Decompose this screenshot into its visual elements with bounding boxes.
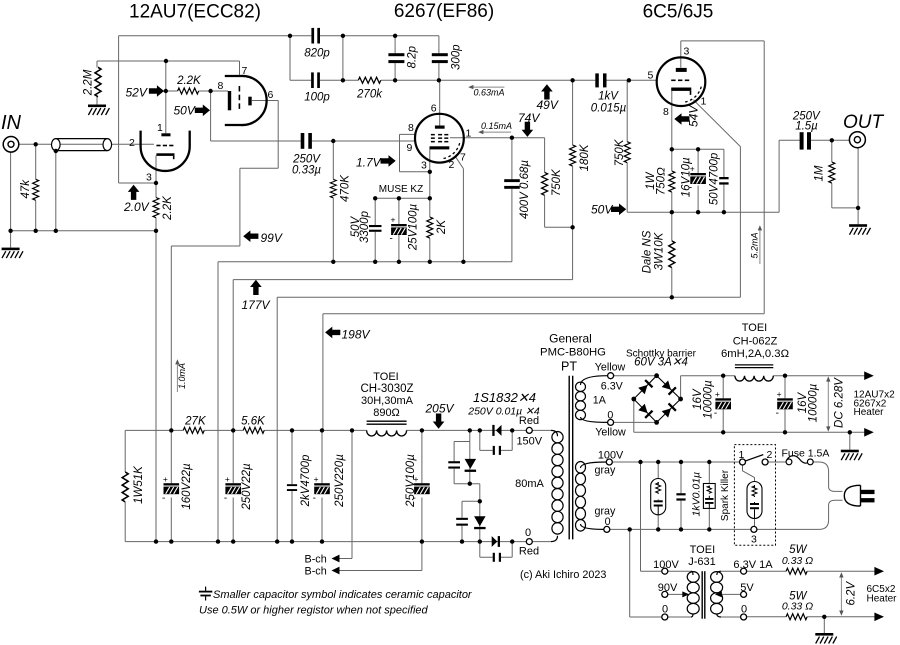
- svg-text:1kV0.01µ: 1kV0.01µ: [691, 472, 703, 517]
- svg-text:177V: 177V: [242, 298, 271, 312]
- svg-text:Yellow: Yellow: [595, 362, 626, 374]
- svg-text:1kV: 1kV: [598, 91, 619, 103]
- svg-text:2.0V: 2.0V: [123, 200, 150, 214]
- svg-text:1: 1: [739, 449, 745, 461]
- svg-text:820p: 820p: [304, 48, 330, 60]
- svg-text:3: 3: [751, 534, 757, 546]
- svg-text:0: 0: [662, 604, 668, 616]
- svg-text:2.2K: 2.2K: [162, 195, 174, 221]
- svg-text:MUSE KZ: MUSE KZ: [379, 184, 423, 195]
- svg-text:TOEI: TOEI: [742, 322, 767, 334]
- svg-text:52V: 52V: [126, 86, 148, 100]
- svg-text:100p: 100p: [304, 92, 330, 104]
- svg-text:10000µ: 10000µ: [807, 383, 819, 422]
- svg-text:3300p: 3300p: [359, 210, 371, 243]
- svg-text:5V: 5V: [740, 582, 754, 594]
- svg-text:1.5µ: 1.5µ: [795, 120, 818, 132]
- svg-text:300p: 300p: [450, 44, 462, 70]
- svg-text:0.015µ: 0.015µ: [591, 103, 627, 115]
- svg-text:6267(EF86): 6267(EF86): [394, 1, 494, 22]
- svg-text:1.0mA: 1.0mA: [177, 363, 187, 389]
- svg-text:6.3V 1A: 6.3V 1A: [733, 559, 773, 571]
- svg-text:470K: 470K: [339, 174, 351, 202]
- svg-text:Schottky barrier: Schottky barrier: [626, 349, 697, 360]
- svg-text:PMC-B80HG: PMC-B80HG: [540, 347, 606, 359]
- svg-text:Yellow: Yellow: [595, 427, 626, 439]
- svg-text:160V22µ: 160V22µ: [181, 463, 193, 510]
- svg-text:TOEI: TOEI: [690, 544, 715, 556]
- svg-text:5: 5: [648, 70, 654, 82]
- svg-text:10000µ: 10000µ: [702, 380, 714, 419]
- svg-text:50V: 50V: [591, 203, 613, 217]
- svg-text:205V: 205V: [425, 402, 455, 416]
- svg-text:Dale NS: Dale NS: [641, 230, 653, 273]
- svg-text:8: 8: [408, 122, 414, 134]
- svg-text:OUT: OUT: [843, 112, 885, 133]
- svg-text:750K: 750K: [551, 168, 563, 196]
- svg-text:30H,30mA: 30H,30mA: [361, 395, 414, 407]
- svg-text:0: 0: [607, 410, 613, 422]
- svg-text:0: 0: [741, 604, 747, 616]
- svg-text:TOEI: TOEI: [373, 371, 398, 383]
- svg-text:3: 3: [421, 160, 427, 172]
- svg-text:0.63mA: 0.63mA: [474, 88, 505, 98]
- svg-text:50V4700p: 50V4700p: [709, 152, 721, 205]
- svg-text:2K: 2K: [436, 219, 448, 235]
- svg-text:6mH,2A,0.3Ω: 6mH,2A,0.3Ω: [721, 348, 789, 360]
- svg-text:7: 7: [460, 152, 466, 164]
- svg-text:25V100µ: 25V100µ: [408, 203, 420, 251]
- svg-text:27K: 27K: [184, 416, 207, 428]
- svg-text:74V: 74V: [518, 111, 540, 125]
- svg-text:0.33µ: 0.33µ: [292, 165, 321, 177]
- svg-text:CH-062Z: CH-062Z: [733, 335, 778, 347]
- svg-text:12AU7(ECC82): 12AU7(ECC82): [129, 2, 261, 23]
- svg-text:250V100µ: 250V100µ: [405, 454, 417, 508]
- svg-text:100V: 100V: [598, 449, 624, 461]
- svg-text:General: General: [549, 332, 592, 346]
- svg-text:6.2V: 6.2V: [845, 581, 857, 606]
- svg-text:Heater: Heater: [867, 594, 898, 605]
- svg-text:100V: 100V: [653, 559, 679, 571]
- svg-text:0: 0: [525, 527, 531, 539]
- svg-text:198V: 198V: [342, 328, 371, 342]
- svg-text:16V10µ: 16V10µ: [681, 157, 693, 197]
- svg-text:3: 3: [684, 46, 690, 58]
- svg-text:890Ω: 890Ω: [373, 407, 400, 419]
- svg-text:50V: 50V: [174, 104, 196, 118]
- svg-text:0.33 Ω: 0.33 Ω: [782, 555, 813, 567]
- svg-text:J-631: J-631: [688, 556, 716, 568]
- svg-text:750K: 750K: [614, 138, 626, 166]
- svg-text:6.3V: 6.3V: [601, 380, 624, 392]
- svg-text:1: 1: [466, 128, 472, 140]
- svg-text:2: 2: [449, 159, 455, 171]
- svg-text:Red: Red: [519, 415, 539, 427]
- svg-text:(c) Aki Ichiro 2023: (c) Aki Ichiro 2023: [520, 569, 606, 581]
- svg-text:6: 6: [268, 89, 274, 101]
- svg-text:6: 6: [431, 103, 437, 115]
- svg-text:1W51K: 1W51K: [133, 465, 145, 504]
- svg-text:5.6K: 5.6K: [241, 416, 266, 428]
- svg-text:0.15mA: 0.15mA: [481, 121, 512, 131]
- svg-text:80mA: 80mA: [515, 478, 544, 490]
- svg-text:Red: Red: [519, 545, 539, 557]
- svg-text:2.2M: 2.2M: [83, 69, 95, 96]
- svg-text:7: 7: [242, 65, 248, 77]
- svg-text:1S1832✕4: 1S1832✕4: [473, 390, 536, 405]
- svg-text:2.2K: 2.2K: [176, 75, 202, 87]
- svg-text:1.7V: 1.7V: [356, 156, 382, 170]
- svg-text:90V: 90V: [658, 582, 678, 594]
- svg-text:3W10K: 3W10K: [653, 231, 665, 270]
- svg-text:0.33 Ω: 0.33 Ω: [782, 601, 813, 613]
- svg-text:2kV4700p: 2kV4700p: [300, 454, 312, 507]
- svg-text:2: 2: [767, 449, 773, 461]
- svg-text:CH-3030Z: CH-3030Z: [360, 383, 413, 395]
- svg-text:49V: 49V: [537, 98, 559, 112]
- svg-text:8.2p: 8.2p: [406, 45, 418, 68]
- svg-text:150V: 150V: [516, 436, 542, 448]
- svg-text:gray: gray: [595, 465, 616, 477]
- svg-text:54V: 54V: [686, 105, 700, 127]
- svg-text:0: 0: [605, 516, 611, 528]
- svg-text:1: 1: [701, 96, 707, 108]
- svg-text:2: 2: [129, 137, 135, 149]
- svg-text:180K: 180K: [579, 143, 591, 171]
- svg-text:1: 1: [157, 122, 163, 134]
- svg-text:99V: 99V: [261, 231, 283, 245]
- svg-text:Use 0.5W or higher registor wh: Use 0.5W or higher registor when not spe…: [199, 605, 429, 617]
- svg-text:PT: PT: [561, 360, 577, 374]
- svg-text:Fuse 1.5A: Fuse 1.5A: [782, 448, 830, 460]
- svg-text:750Ω: 750Ω: [655, 167, 667, 195]
- svg-text:9: 9: [407, 142, 413, 154]
- svg-text:Heater: Heater: [854, 407, 885, 418]
- svg-text:6C5/6J5: 6C5/6J5: [643, 2, 714, 23]
- svg-text:IN: IN: [1, 112, 22, 134]
- svg-text:8: 8: [218, 80, 224, 92]
- svg-text:8: 8: [663, 106, 669, 118]
- svg-text:1M: 1M: [813, 165, 825, 181]
- svg-text:3: 3: [146, 172, 152, 184]
- svg-text:Smaller capacitor symbol indic: Smaller capacitor symbol indicates ceram…: [213, 589, 473, 601]
- svg-text:DC 6.28V: DC 6.28V: [833, 377, 845, 428]
- svg-text:250V22µ: 250V22µ: [241, 463, 253, 511]
- svg-text:B-ch: B-ch: [305, 566, 327, 578]
- svg-text:250V220µ: 250V220µ: [334, 454, 346, 508]
- svg-text:400V 0.68µ: 400V 0.68µ: [519, 160, 531, 219]
- svg-text:B-ch: B-ch: [305, 554, 327, 566]
- svg-text:5.2mA: 5.2mA: [749, 232, 759, 258]
- svg-text:47k: 47k: [20, 179, 32, 199]
- svg-text:Spark Killer: Spark Killer: [720, 469, 731, 521]
- svg-text:1A: 1A: [593, 395, 607, 407]
- svg-text:270k: 270k: [356, 89, 383, 101]
